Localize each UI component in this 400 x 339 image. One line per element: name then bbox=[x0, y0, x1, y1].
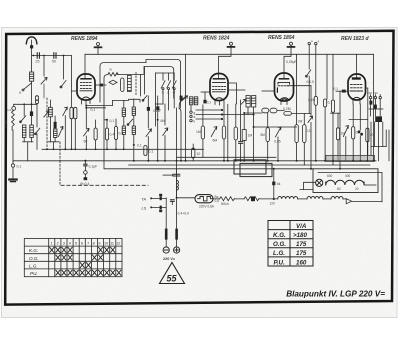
trimmer 243 bbox=[241, 99, 246, 104]
volume bus bbox=[14, 103, 37, 105]
top right terminals bbox=[308, 42, 310, 44]
speaker field winding bbox=[326, 155, 375, 161]
wire tube1 left bbox=[72, 90, 78, 92]
capsule 325 bbox=[324, 99, 327, 107]
resistor zigzag 2 bbox=[244, 197, 259, 201]
trimmer arrow bbox=[41, 78, 47, 85]
box resistor 244 bbox=[242, 130, 246, 141]
wire 227.8 bbox=[227, 104, 229, 161]
trimmer 310 bbox=[308, 116, 313, 122]
dashed link bbox=[135, 73, 137, 96]
vertical 311 bbox=[310, 86, 312, 116]
antenna lead blob bbox=[30, 45, 33, 48]
power minus lead bbox=[165, 198, 167, 246]
capsule 267 bbox=[266, 128, 269, 142]
spring coil bbox=[177, 181, 179, 191]
wires down bbox=[163, 90, 174, 110]
wire right drop bbox=[71, 56, 73, 108]
bus 157.3 bbox=[177, 156, 276, 158]
switch s bbox=[128, 119, 133, 124]
main bus 160.8 bbox=[13, 160, 376, 162]
wire bbox=[43, 56, 45, 77]
capsule small bbox=[144, 146, 147, 156]
tube V4 pins bbox=[353, 100, 360, 104]
tube V3 RENS1854 bbox=[275, 73, 294, 101]
short bus bbox=[23, 141, 34, 143]
wires IF b bbox=[133, 99, 135, 161]
tube1 grid cap bbox=[97, 43, 100, 46]
ground branch bbox=[12, 161, 14, 164]
wire bbox=[43, 84, 45, 98]
barretter bbox=[195, 195, 213, 203]
capsule 333 bbox=[331, 100, 334, 112]
lamp circle-X bbox=[316, 179, 323, 186]
tube V4 REN1823d bbox=[348, 74, 366, 100]
tube3 grid cap bbox=[290, 42, 293, 45]
switch a bbox=[24, 83, 32, 90]
coil hatched bbox=[127, 76, 131, 92]
column 165 bbox=[164, 104, 166, 125]
bus junction dots bbox=[84, 160, 374, 162]
capsule column37 bbox=[36, 99, 38, 101]
wire bbox=[374, 122, 376, 147]
outer line bbox=[318, 172, 382, 201]
links to dots bbox=[196, 110, 253, 119]
wire 253 down bbox=[254, 127, 297, 161]
tube V1 pins bbox=[82, 100, 91, 106]
resistor zigzag bbox=[220, 197, 235, 201]
column 157 bbox=[157, 96, 159, 106]
capsule bbox=[314, 96, 317, 105]
antenna bbox=[26, 37, 37, 44]
wires IF a bbox=[123, 100, 125, 148]
resistor capsule bbox=[114, 127, 117, 140]
band switch bank bbox=[155, 72, 174, 74]
node 12V bbox=[273, 198, 275, 200]
wire plate tube1 bbox=[95, 84, 106, 86]
schematic border frame bbox=[5, 31, 393, 305]
voice coil humps bbox=[326, 180, 364, 185]
tube V1 RENS1894 bbox=[77, 74, 95, 100]
tube V2 pins bbox=[215, 101, 224, 106]
curve coupling bbox=[179, 98, 184, 109]
wire tube2 right bbox=[228, 83, 237, 104]
coil hatched col50 bbox=[49, 107, 53, 117]
trimmer top bbox=[182, 96, 188, 101]
coil hatched bbox=[30, 125, 34, 138]
wire to ground bus bbox=[12, 130, 14, 161]
choke loops 2 bbox=[307, 196, 323, 198]
wire bbox=[315, 45, 317, 97]
switch top bbox=[143, 96, 147, 101]
cluster blobs bbox=[369, 101, 372, 105]
antenna coil bbox=[30, 72, 34, 81]
trimmer col65 bbox=[63, 107, 68, 115]
dashed gang bbox=[59, 142, 61, 161]
vertical 296 bbox=[296, 54, 298, 124]
wire 340 bbox=[339, 91, 341, 169]
wire tube4 left bbox=[336, 90, 348, 92]
bead bbox=[100, 84, 103, 87]
fuse plus bbox=[175, 229, 178, 240]
node bbox=[63, 55, 65, 57]
trimmer col60 bbox=[59, 127, 64, 137]
IF coil b bbox=[132, 107, 135, 135]
choke loops 3 bbox=[331, 196, 343, 198]
IF coils 246 bbox=[246, 96, 256, 108]
coil hatched col55 bbox=[53, 129, 57, 138]
main bus 169 bbox=[105, 168, 314, 170]
choke loops bbox=[278, 196, 298, 198]
pot terminal bbox=[12, 107, 16, 111]
drop 274 bbox=[273, 169, 275, 199]
node bbox=[23, 103, 25, 105]
dashed gang bus bbox=[61, 184, 148, 186]
node bbox=[33, 55, 35, 57]
switch bbox=[35, 128, 39, 134]
wire bbox=[63, 56, 65, 80]
IF transformer coils bbox=[189, 97, 197, 105]
var cap diamond bbox=[109, 80, 117, 84]
node bbox=[43, 55, 45, 57]
cap blob bbox=[30, 111, 33, 116]
wires bbox=[248, 107, 254, 127]
plug bbox=[343, 198, 346, 200]
stair wire C bbox=[117, 67, 174, 98]
horizontal capsule bbox=[284, 112, 292, 116]
switch N bbox=[161, 81, 165, 88]
series cap bbox=[170, 200, 174, 202]
stair wire 2 bbox=[86, 107, 106, 109]
node bbox=[106, 119, 108, 121]
voltage table bbox=[268, 221, 313, 267]
ground chassis bbox=[9, 178, 16, 180]
lamp branch bbox=[300, 182, 316, 189]
blob col181 bbox=[180, 96, 183, 101]
resistor zigzag 0,5M bbox=[12, 110, 15, 130]
wire antenna down bbox=[31, 48, 33, 72]
jack column bbox=[84, 160, 86, 162]
fuse minus bbox=[165, 229, 168, 240]
short bus bbox=[48, 141, 59, 143]
wire drop 104 bbox=[103, 115, 105, 169]
tube V2 RENS1824 bbox=[210, 74, 228, 101]
switch t2 bbox=[306, 70, 310, 76]
plus terminal bbox=[174, 247, 180, 253]
wire row 113 bbox=[245, 111, 284, 114]
stair wire B bbox=[100, 60, 181, 109]
tube2 grid cap bbox=[230, 42, 233, 45]
resistor capsule bbox=[94, 128, 97, 140]
capsule coil bbox=[121, 78, 124, 92]
capacitor 25 bbox=[37, 53, 39, 58]
node bbox=[85, 105, 87, 107]
coil hatched bbox=[22, 125, 26, 138]
capsule bbox=[222, 126, 225, 139]
capsule small bbox=[192, 148, 195, 158]
chain wire bbox=[177, 197, 195, 199]
mains block bbox=[375, 116, 382, 122]
speaker box bbox=[313, 169, 378, 193]
wire antenna bus bbox=[32, 55, 72, 57]
long vertical 176 bbox=[176, 108, 178, 198]
top grid bus bbox=[85, 53, 374, 55]
capsule pair 296/304 bbox=[295, 125, 298, 143]
long vertical 181 bbox=[179, 108, 181, 160]
capsules row bbox=[336, 128, 339, 140]
wire tube4 right bbox=[366, 88, 368, 156]
wire bbox=[388, 130, 390, 161]
blob col55 bbox=[54, 122, 57, 129]
wire tube3 left bbox=[262, 90, 275, 92]
resistor zigzag w bbox=[108, 73, 118, 77]
main bus 165 bbox=[129, 164, 370, 166]
long vertical 185.5 bbox=[185, 54, 187, 161]
wire bbox=[308, 45, 310, 69]
dots column 222 bbox=[221, 109, 223, 111]
wire grid tube1 bbox=[84, 54, 86, 79]
switch O bbox=[172, 81, 176, 88]
capsule 1M bbox=[201, 126, 204, 139]
output transformer bbox=[234, 160, 266, 174]
main bus 149 bbox=[42, 148, 204, 150]
node bbox=[133, 144, 135, 146]
pins column 190 bbox=[190, 105, 192, 111]
wire coil down bbox=[31, 81, 33, 104]
cap bars bbox=[239, 142, 243, 144]
switch t bbox=[61, 81, 66, 88]
tuning cap dashed bbox=[46, 98, 48, 149]
tube4 wires top bbox=[356, 54, 358, 77]
trimmer 278 bbox=[275, 127, 281, 137]
voltage taps bbox=[369, 96, 371, 98]
wire bbox=[85, 108, 87, 128]
hazard triangle 55 bbox=[160, 263, 185, 284]
wire box left drop bbox=[104, 75, 108, 115]
capsule pair col71 bbox=[70, 107, 73, 119]
trimmer bbox=[211, 127, 217, 137]
link bbox=[331, 112, 341, 114]
trimmer bbox=[84, 129, 90, 137]
ellipse caps under tube3 bbox=[262, 108, 269, 113]
link bbox=[349, 119, 367, 121]
wire tube3 right bbox=[287, 85, 311, 87]
capacitor 50 bbox=[54, 53, 56, 58]
left function table bbox=[24, 239, 122, 277]
resistor capsule bbox=[105, 128, 108, 140]
column 148 bbox=[147, 96, 149, 107]
wires taps bbox=[371, 99, 381, 116]
IF coil a bbox=[122, 108, 125, 135]
switch E bbox=[167, 81, 171, 88]
capsule bbox=[234, 127, 237, 140]
tube V3 pins bbox=[281, 101, 287, 105]
stair wire 1 bbox=[86, 99, 140, 105]
wire tube2 left bbox=[201, 91, 210, 93]
power plus lead bbox=[176, 170, 178, 246]
switch w bbox=[21, 116, 26, 122]
minus terminal bbox=[163, 247, 169, 253]
series cap bbox=[173, 174, 180, 176]
